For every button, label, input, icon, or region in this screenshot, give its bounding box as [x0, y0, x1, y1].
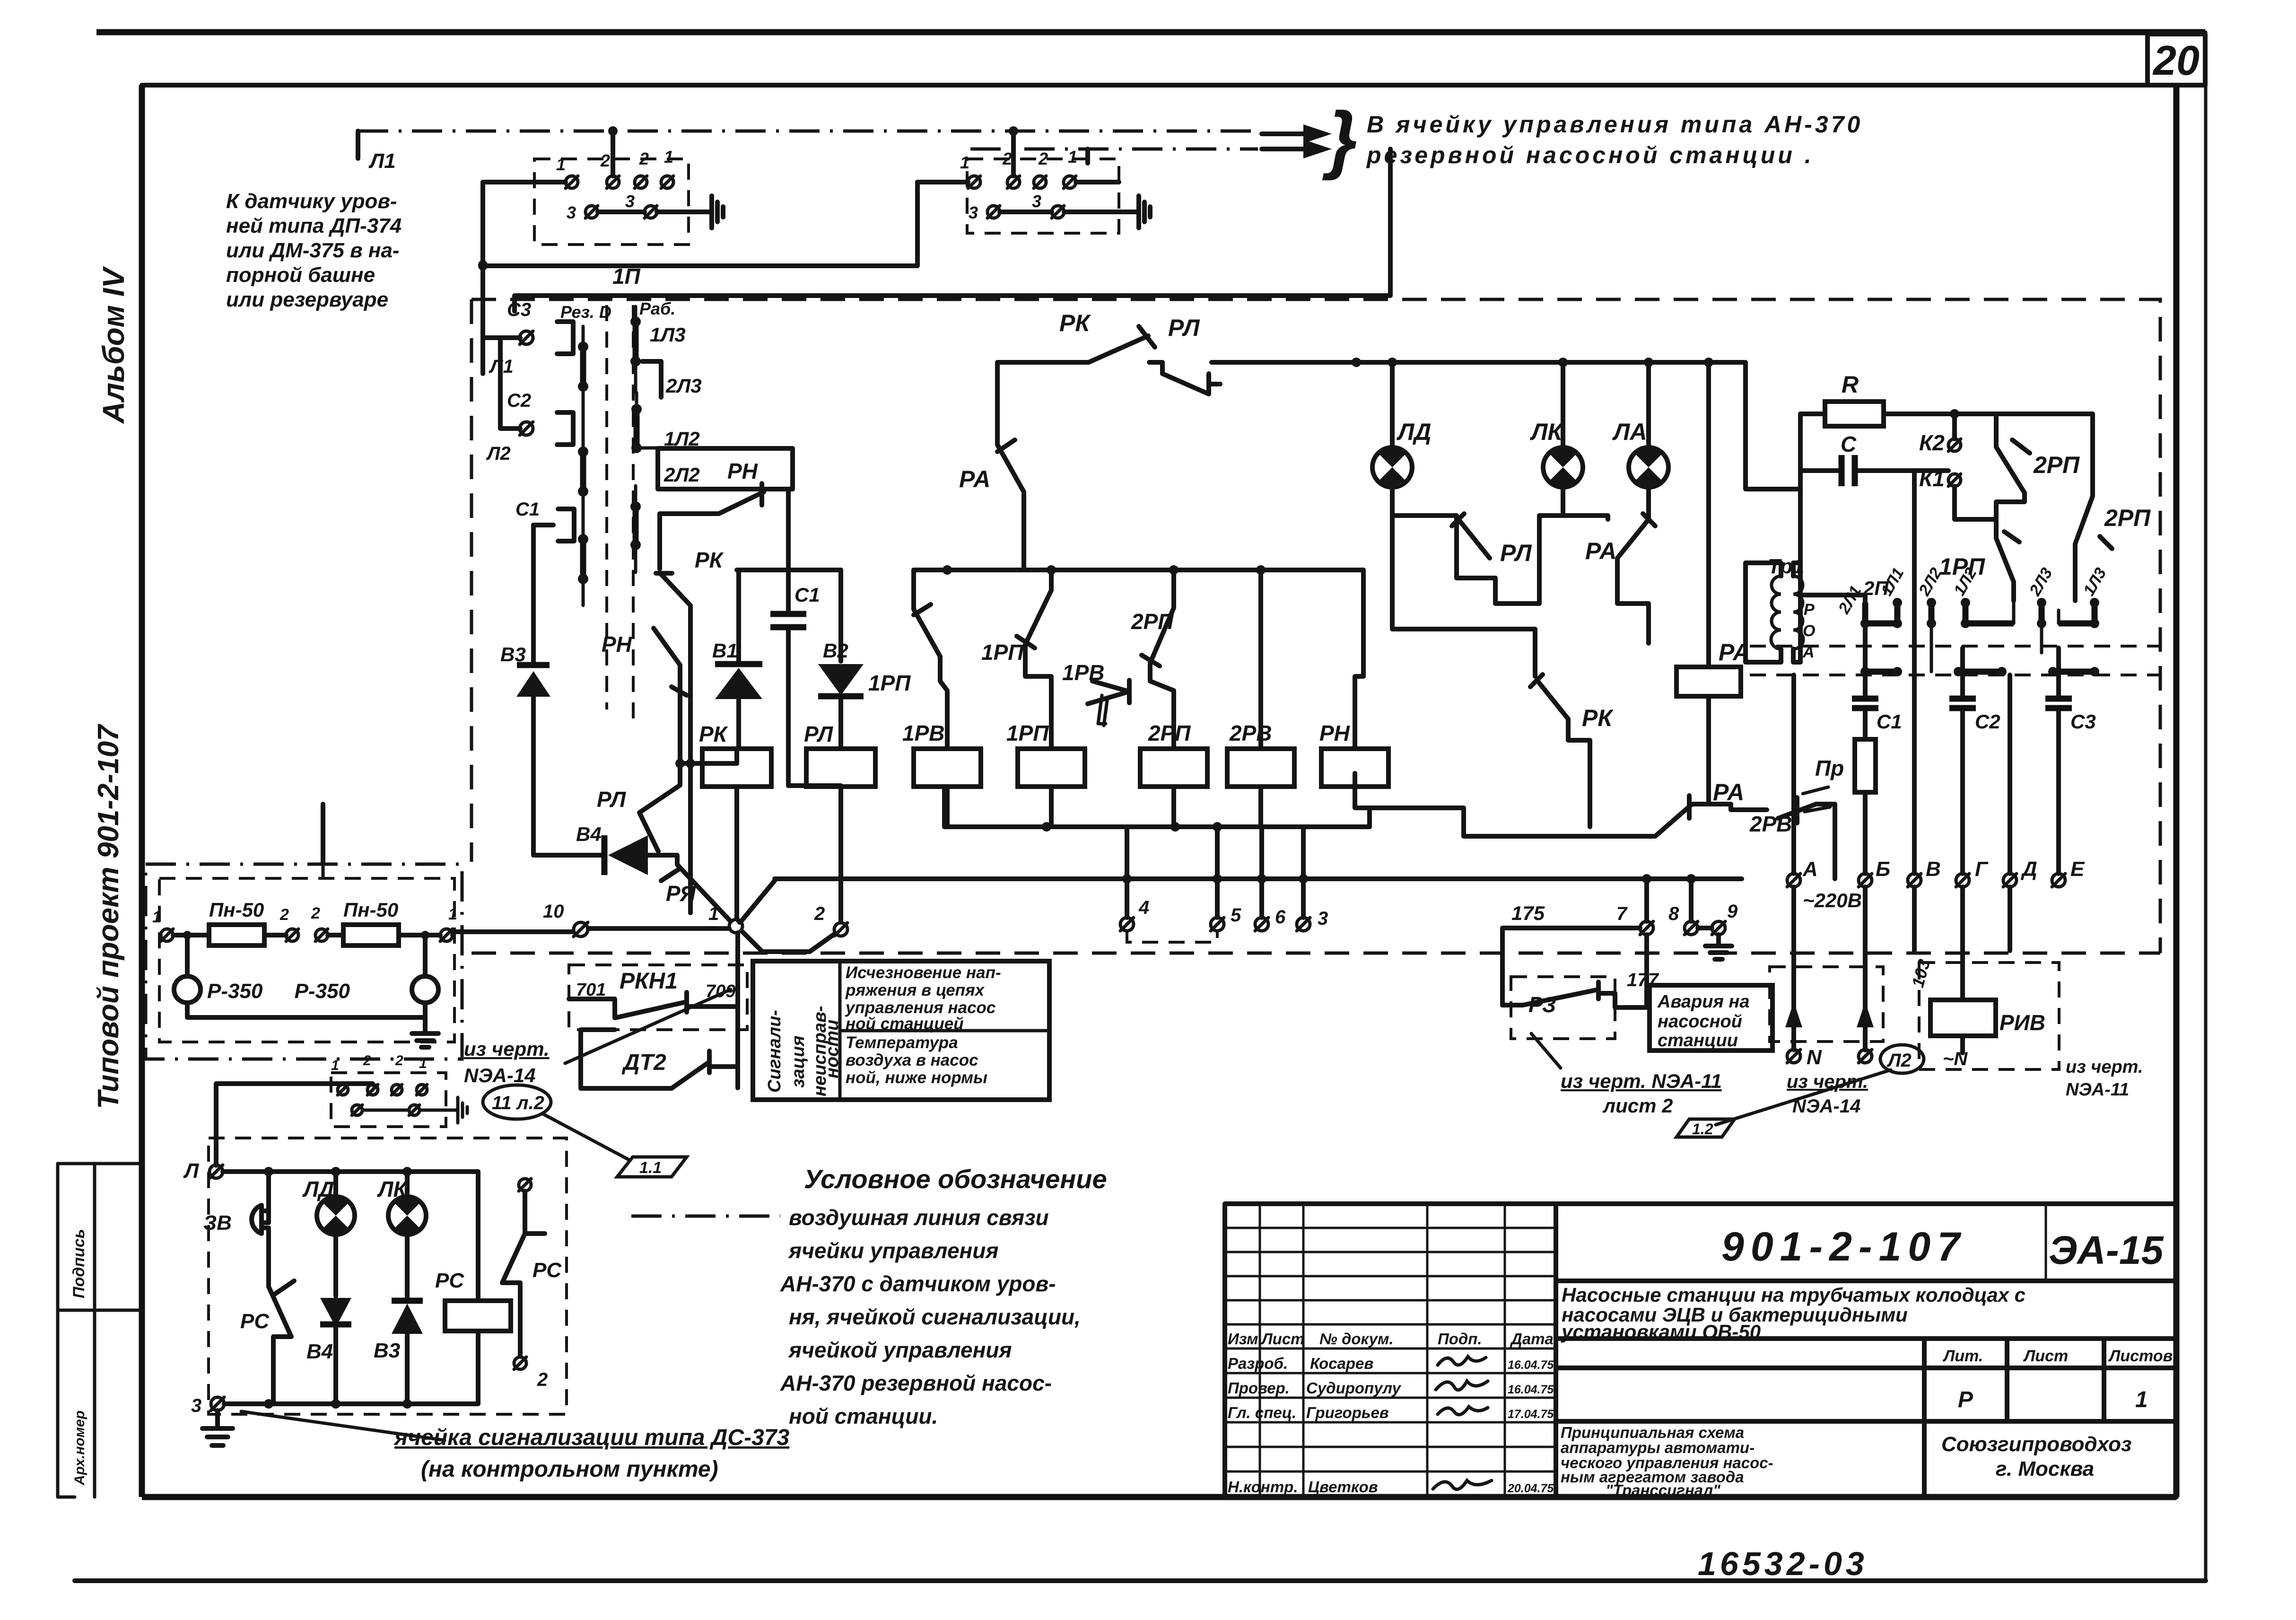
svg-text:1: 1 — [1068, 147, 1077, 166]
lamp ЛД cell — [302, 1172, 355, 1296]
sheet bottom border line — [75, 1578, 2206, 1583]
П-50 module dashed box — [159, 878, 454, 1042]
capacitor С1 middle — [770, 570, 820, 786]
svg-text:РЛ: РЛ — [1500, 540, 1532, 566]
note К датчику уровней — [226, 190, 402, 311]
cable oval Л2 — [1880, 1045, 1924, 1073]
relay РЗ dashed box — [1502, 935, 1659, 1039]
vertical right trunk — [1746, 362, 1800, 489]
signal table Сигнализация неисправности — [753, 961, 1049, 1100]
svg-text:ности: ности — [822, 1020, 842, 1078]
svg-text:1РВ: 1РВ — [1062, 660, 1104, 685]
svg-text:Л2: Л2 — [486, 443, 511, 464]
svg-text:Л1: Л1 — [368, 149, 396, 173]
svg-text:2РВ: 2РВ — [1229, 721, 1272, 745]
margin text Альбом IV — [96, 265, 131, 424]
bell ЗВ — [203, 1205, 269, 1235]
svg-text:16.04.75: 16.04.75 — [1508, 1358, 1554, 1372]
terminal 7 — [1616, 879, 1653, 935]
link Раб column lower — [630, 486, 641, 572]
panel boundary dashed lines — [1750, 646, 2160, 675]
svg-text:воздушная линия связи: воздушная линия связи — [789, 1205, 1049, 1230]
svg-text:К1: К1 — [1919, 466, 1945, 491]
relay coil 2РП — [1140, 721, 1207, 827]
frame right vertical thick — [2174, 85, 2180, 1497]
svg-text:К датчику уров-: К датчику уров- — [226, 190, 397, 213]
cell bottom bus — [224, 1399, 478, 1409]
note из черт НЭА-14 with oval — [464, 990, 731, 1119]
П-50 module dash-dot box — [146, 864, 462, 1059]
lamp ЛК cell — [377, 1172, 426, 1297]
contact РК lower — [1392, 516, 1614, 827]
wire 175 to РЗ — [1502, 902, 1640, 1005]
svg-text:ЛК: ЛК — [1530, 419, 1563, 445]
contact РК upper left — [656, 548, 724, 763]
lower link jumpers — [1860, 667, 2099, 676]
svg-text:В3: В3 — [374, 1339, 400, 1362]
terminal В — [1908, 858, 1941, 887]
svg-text:3: 3 — [191, 1395, 201, 1416]
svg-text:1РВ: 1РВ — [902, 721, 944, 745]
svg-text:1.1: 1.1 — [639, 1159, 662, 1177]
capacitor С2 right — [1949, 648, 2000, 874]
svg-text:6: 6 — [1275, 907, 1286, 928]
svg-text:1.2: 1.2 — [1692, 1121, 1713, 1138]
svg-text:2РП: 2РП — [2033, 452, 2080, 478]
box A terminals — [556, 147, 673, 222]
relay coil РН — [1319, 570, 1388, 787]
branch contact 1РП second — [981, 570, 1051, 749]
svg-text:2: 2 — [363, 1053, 371, 1068]
svg-text:С2: С2 — [507, 390, 531, 411]
relay coil 1РП — [1006, 721, 1085, 827]
svg-text:2: 2 — [1002, 149, 1012, 168]
svg-text:"Транссигнал": "Транссигнал" — [1606, 1481, 1720, 1499]
terminal 3 — [1297, 827, 1328, 931]
svg-text:РС: РС — [240, 1310, 270, 1333]
contact РА under lamps — [1563, 514, 1655, 643]
svg-text:2: 2 — [311, 904, 320, 922]
svg-text:РЛ: РЛ — [804, 722, 834, 746]
svg-text:2Л3: 2Л3 — [665, 375, 702, 397]
svg-text:ЗВ: ЗВ — [203, 1211, 232, 1235]
terminal Л — [183, 1159, 223, 1182]
contact РН blade — [602, 628, 687, 763]
svg-text:901-2-107: 901-2-107 — [1721, 1224, 1966, 1270]
inner frame bottom line — [142, 1494, 2176, 1500]
transformer Тр1 — [1746, 555, 1804, 662]
svg-text:С1: С1 — [1877, 710, 1902, 733]
supply feeders А Б with arrows — [1785, 887, 1874, 1069]
column Д down — [2008, 675, 2012, 951]
svg-text:резервной насосной станции .: резервной насосной станции . — [1366, 142, 1814, 168]
svg-text:В2: В2 — [823, 639, 848, 662]
relay coil РК — [699, 722, 771, 922]
diode В4 — [533, 823, 677, 875]
link Рез column lower — [578, 534, 588, 605]
svg-text:Исчезновение нап-: Исчезновение нап- — [846, 963, 1001, 982]
svg-text:С3: С3 — [2070, 710, 2096, 733]
title block — [1225, 1204, 2176, 1497]
svg-text:Подпись: Подпись — [70, 1229, 88, 1298]
svg-text:Альбом IV: Альбом IV — [96, 265, 131, 424]
svg-text:С1: С1 — [515, 499, 540, 520]
terminal Е — [2052, 858, 2085, 887]
margin stamp column — [58, 1164, 142, 1497]
svg-text:ЭА-15: ЭА-15 — [2049, 1228, 2164, 1272]
svg-text:РН: РН — [727, 459, 758, 483]
svg-text:2РП: 2РП — [2104, 505, 2151, 531]
svg-text:1РП: 1РП — [981, 640, 1024, 665]
branch 1РП contact to coil 1РВ — [868, 570, 947, 749]
air line second segment — [970, 148, 1258, 151]
alarm text box Авария — [1650, 985, 1772, 1051]
contact 1РВ timer — [1062, 660, 1129, 726]
terminal 2 — [814, 903, 847, 936]
svg-text:ячейкой управления: ячейкой управления — [787, 1338, 1012, 1362]
svg-text:К2: К2 — [1919, 430, 1945, 455]
svg-text:Авария на: Авария на — [1657, 992, 1749, 1012]
svg-text:3: 3 — [969, 203, 978, 222]
svg-text:С2: С2 — [1975, 710, 2000, 733]
svg-text:станции: станции — [1658, 1031, 1738, 1051]
svg-text:Лист: Лист — [2023, 1347, 2068, 1365]
terminal box B (dashed) — [967, 159, 1119, 233]
svg-text:~N: ~N — [1943, 1049, 1968, 1069]
column В down — [1912, 471, 1917, 951]
wire from node1 up to bus — [741, 881, 775, 921]
svg-text:Листов: Листов — [2108, 1347, 2173, 1365]
box A wires — [483, 131, 712, 212]
svg-text:ячейка сигнализации типа ДС-37: ячейка сигнализации типа ДС-373 — [393, 1425, 790, 1450]
svg-text:РИВ: РИВ — [1999, 1010, 2045, 1035]
terminal 4 — [1120, 827, 1149, 931]
svg-text:Л2: Л2 — [1886, 1050, 1912, 1071]
svg-text:№ докум.: № докум. — [1319, 1330, 1394, 1348]
capacitor С1 right — [1852, 623, 1902, 736]
module wires — [173, 932, 454, 1017]
svg-text:РС: РС — [435, 1269, 464, 1292]
svg-text:ячейки управления: ячейки управления — [787, 1238, 999, 1263]
lamp ЛК — [1530, 362, 1583, 516]
lit list listov cells — [1942, 1347, 2173, 1412]
svg-text:NЭА-14: NЭА-14 — [1792, 1096, 1860, 1117]
branch contact 2РП — [1131, 570, 1174, 749]
svg-text:1: 1 — [419, 1056, 427, 1071]
svg-text:~220В: ~220В — [1803, 889, 1862, 911]
svg-text:5: 5 — [1231, 905, 1241, 926]
leader to flag 1.1 — [543, 1114, 629, 1160]
dashed box around supply — [1770, 967, 1883, 1042]
svg-text:РА: РА — [1713, 779, 1744, 806]
svg-text:РК: РК — [699, 722, 728, 746]
svg-text:1: 1 — [960, 153, 969, 172]
svg-text:16532-03: 16532-03 — [1698, 1545, 1868, 1582]
svg-text:Р: Р — [1958, 1387, 1973, 1412]
fuse Пн-50 no.2 — [343, 899, 399, 946]
socket С1 — [515, 499, 574, 541]
title block header texts — [1228, 1330, 1554, 1496]
svg-text:ня, ячейкой сигнализации,: ня, ячейкой сигнализации, — [789, 1305, 1081, 1329]
svg-text:2Л2: 2Л2 — [663, 464, 700, 486]
svg-text:Григорьев: Григорьев — [1306, 1404, 1389, 1421]
svg-text:1: 1 — [556, 155, 566, 174]
patch link row — [1835, 565, 2110, 672]
link Рез column upper — [578, 326, 588, 426]
terminal 6 — [1255, 827, 1286, 931]
svg-text:2: 2 — [814, 903, 825, 924]
svg-text:Косарев: Косарев — [1310, 1355, 1373, 1372]
meter Р-350 left — [174, 976, 263, 1003]
svg-text:РС: РС — [533, 1259, 562, 1282]
svg-text:1П: 1П — [612, 264, 641, 289]
contact РС right — [502, 1179, 562, 1390]
terminal Д — [2003, 858, 2037, 887]
fuse Пн-50 no.1 — [209, 899, 264, 946]
svg-text:Пр: Пр — [1815, 756, 1844, 780]
socket С3 — [478, 182, 573, 377]
long bottom bus y1858 — [775, 876, 1742, 881]
lamp ЛА — [1612, 362, 1668, 516]
svg-text:7: 7 — [1616, 903, 1628, 924]
page number box 20 — [2148, 34, 2205, 85]
svg-text:3: 3 — [567, 203, 576, 222]
svg-text:Рез. D: Рез. D — [560, 302, 611, 322]
box B terminals — [960, 147, 1077, 222]
svg-text:РЗ: РЗ — [1528, 992, 1556, 1017]
module ground — [412, 1017, 438, 1047]
arrow to AH-370 line2 — [1262, 140, 1332, 158]
contact 2РВ special — [1731, 787, 1835, 879]
contact РЛ under lamps — [1392, 514, 1563, 604]
svg-text:ной, ниже нормы: ной, ниже нормы — [846, 1068, 987, 1087]
left vertical of RC loop — [1798, 414, 1803, 595]
terminal Г — [1956, 858, 1989, 887]
thermal sensor ДТ2 box — [581, 1030, 738, 1088]
diode В3 cell — [374, 1301, 423, 1404]
svg-text:Лит.: Лит. — [1942, 1347, 1983, 1365]
svg-text:Изм: Изм — [1228, 1330, 1258, 1348]
svg-text:г. Москва: г. Москва — [1996, 1457, 2094, 1480]
svg-text:N: N — [1807, 1046, 1822, 1069]
caption ячейка сигнализации — [393, 1425, 790, 1482]
leader to flag 1.2 — [1716, 1070, 1891, 1125]
svg-text:Дата: Дата — [1510, 1330, 1554, 1348]
diode В4 cell — [306, 1298, 351, 1404]
svg-text:ЛД: ЛД — [302, 1177, 334, 1201]
capacitor С — [1800, 432, 1948, 486]
terminal Б — [1859, 858, 1890, 887]
leader to caption — [241, 1411, 445, 1440]
terminal 10 and feeder wire — [454, 901, 729, 937]
svg-text:Судиропулу: Судиропулу — [1306, 1379, 1402, 1397]
svg-text:2: 2 — [395, 1053, 403, 1068]
svg-text:лист 2: лист 2 — [1602, 1095, 1673, 1117]
meter Р-350 right — [295, 976, 438, 1003]
svg-text:Пн-50: Пн-50 — [343, 899, 398, 921]
svg-text:ЛД: ЛД — [1397, 419, 1431, 445]
terminal А — [1787, 675, 1862, 911]
svg-text:С1: С1 — [794, 584, 820, 606]
svg-text:Р-350: Р-350 — [207, 980, 263, 1003]
svg-text:РК: РК — [695, 548, 724, 572]
svg-text:1: 1 — [708, 903, 719, 924]
svg-text:10: 10 — [543, 901, 564, 922]
relay coil 2РВ — [1227, 570, 1294, 827]
labels Рез D Раб — [560, 299, 675, 322]
svg-text:насосной: насосной — [1658, 1012, 1742, 1032]
svg-text:2РВ: 2РВ — [1749, 812, 1792, 836]
wire node1 to terminal 2 — [742, 931, 834, 952]
svg-text:из черт.: из черт. — [1787, 1071, 1868, 1092]
fuse Пр — [1815, 736, 1876, 874]
svg-text:РК: РК — [1059, 310, 1091, 336]
flag 1.1 — [617, 1157, 687, 1177]
svg-text:О: О — [1803, 622, 1815, 640]
svg-text:Типовой проект 901-2-107: Типовой проект 901-2-107 — [92, 724, 125, 1109]
svg-text:В: В — [1926, 858, 1941, 881]
svg-text:Раб.: Раб. — [639, 299, 675, 318]
svg-text:или ДМ-375 в на-: или ДМ-375 в на- — [226, 239, 400, 262]
svg-text:2: 2 — [279, 906, 289, 924]
contact РА bottom — [1355, 773, 1744, 836]
air line riser to module — [321, 804, 325, 864]
box B wires — [917, 131, 1139, 212]
note из черт НЭА-11 right — [2066, 1057, 2143, 1100]
sheet right border thin — [2204, 32, 2208, 1580]
diode В2 — [818, 570, 864, 749]
relay РИВ — [1908, 887, 2059, 1069]
svg-text:или резервуаре: или резервуаре — [226, 288, 388, 311]
svg-text:Разроб.: Разроб. — [1228, 1355, 1288, 1372]
svg-text:ней типа ДП-374: ней типа ДП-374 — [226, 214, 402, 237]
svg-text:В4: В4 — [576, 823, 602, 845]
svg-text:20.04.75: 20.04.75 — [1507, 1482, 1554, 1495]
top bus of control circuit — [997, 362, 1744, 445]
lamp ЛД — [1372, 362, 1431, 516]
svg-text:установками ОВ-50: установками ОВ-50 — [1561, 1321, 1761, 1343]
resistor R — [1800, 371, 2093, 426]
svg-text:РН: РН — [1319, 721, 1350, 745]
svg-text:1: 1 — [664, 147, 673, 166]
svg-text:РЛ: РЛ — [1168, 315, 1200, 341]
middle bus y1205 — [914, 568, 1363, 572]
svg-text:ЛА: ЛА — [1612, 419, 1647, 445]
svg-text:3: 3 — [1032, 192, 1041, 211]
connector К2 К1 — [1919, 409, 1996, 519]
organization cell — [1941, 1433, 2131, 1480]
relay coil РС — [435, 1172, 511, 1404]
terminal 9 with ground — [1698, 901, 1738, 959]
svg-text:Р: Р — [1804, 601, 1815, 619]
contact РА branch — [959, 440, 1024, 570]
line letters РОА — [1802, 601, 1815, 661]
svg-text:Е: Е — [2070, 858, 2085, 881]
svg-text:NЭА-14: NЭА-14 — [464, 1064, 536, 1086]
arrow to AH-370 line1 — [1262, 124, 1332, 143]
legend sample line — [631, 1215, 780, 1218]
svg-text:3: 3 — [1318, 908, 1328, 929]
note из черт НЭА-14 right — [1787, 1071, 1868, 1117]
svg-text:(на контрольном пункте): (на контрольном пункте) — [421, 1457, 718, 1482]
svg-text:ряжения в цепях: ряжения в цепях — [845, 981, 985, 999]
svg-text:2: 2 — [639, 149, 649, 168]
inner dashed verticals Рез/Раб — [607, 305, 633, 719]
svg-text:С: С — [1841, 432, 1857, 456]
svg-text:Г: Г — [1975, 858, 1989, 881]
contact РЛ blade — [597, 763, 680, 851]
contact РК on bus — [1059, 310, 1155, 362]
svg-text:1: 1 — [448, 905, 457, 923]
legend text — [780, 1205, 1081, 1428]
label 2П — [1800, 577, 1889, 603]
sheet top border line — [96, 29, 2205, 35]
signatures — [1438, 1357, 1486, 1365]
svg-text:R: R — [1842, 371, 1859, 398]
svg-text:Д: Д — [2020, 858, 2037, 881]
svg-text:Пн-50: Пн-50 — [209, 899, 264, 921]
svg-text:9: 9 — [1727, 901, 1738, 922]
wires to РК coil — [680, 763, 737, 913]
capacitor С3 right — [2045, 648, 2096, 874]
svg-text:2: 2 — [537, 1369, 548, 1390]
svg-text:3: 3 — [625, 192, 635, 211]
svg-text:ЛК: ЛК — [377, 1177, 408, 1201]
svg-text:1Л3: 1Л3 — [650, 324, 686, 346]
svg-text:из черт.: из черт. — [2066, 1057, 2143, 1077]
relay coil РЛ — [788, 722, 875, 922]
svg-text:В3: В3 — [500, 643, 526, 666]
svg-text:11 л.2: 11 л.2 — [492, 1093, 544, 1113]
svg-text:Союзгипроводхоз: Союзгипроводхоз — [1941, 1433, 2131, 1456]
svg-text:NЭА-11: NЭА-11 — [2066, 1080, 2129, 1100]
flag 1.2 — [1676, 1119, 1735, 1138]
svg-text:Арх.номер: Арх.номер — [72, 1410, 87, 1486]
svg-text:АН-370 резервной насос-: АН-370 резервной насос- — [780, 1371, 1052, 1395]
svg-text:Лист: Лист — [1261, 1330, 1305, 1348]
svg-text:1: 1 — [2135, 1387, 2148, 1412]
vertical trunk from node1 down — [735, 933, 740, 1088]
frame left vertical — [139, 85, 145, 1497]
node 1 junction — [708, 903, 742, 933]
contact РЯ blade — [661, 855, 731, 921]
svg-text:1: 1 — [331, 1058, 339, 1073]
ground at box A — [712, 196, 723, 228]
svg-text:8: 8 — [1668, 903, 1679, 924]
svg-text:из черт.: из черт. — [464, 1038, 550, 1060]
project name text — [1561, 1284, 2025, 1343]
air line (dash-dot) top — [358, 130, 1258, 133]
relay coil РА — [1676, 362, 1750, 804]
inner frame top line — [142, 83, 2148, 88]
svg-text:17.04.75: 17.04.75 — [1508, 1408, 1554, 1421]
svg-text:РЛ: РЛ — [597, 787, 627, 812]
contact 2РП second — [2075, 414, 2151, 601]
svg-text:Цветков: Цветков — [1308, 1478, 1378, 1496]
contact 1РП right — [1939, 519, 2019, 601]
svg-text:ной станцией: ной станцией — [846, 1015, 964, 1033]
link Рез column mid — [578, 426, 588, 539]
drawing title text — [1561, 1424, 1773, 1499]
svg-text:2: 2 — [600, 151, 610, 170]
node Л1 tick — [358, 131, 396, 173]
svg-text:порной башне: порной башне — [226, 263, 375, 287]
svg-text:из черт. NЭА-11: из черт. NЭА-11 — [1561, 1070, 1722, 1092]
svg-text:1: 1 — [152, 908, 161, 926]
wire 1П row y625 — [515, 149, 1390, 311]
svg-text:С3: С3 — [507, 299, 531, 320]
svg-text:АН-370 с датчиком уров-: АН-370 с датчиком уров- — [780, 1271, 1056, 1296]
